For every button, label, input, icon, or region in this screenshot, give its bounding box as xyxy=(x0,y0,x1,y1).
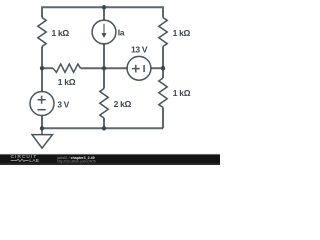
svg-text:1 kΩ: 1 kΩ xyxy=(173,28,191,38)
value label R4 2 kOhm xyxy=(114,99,132,109)
value label R3 1 kOhm xyxy=(58,77,76,87)
resistor R2 1 kOhm top-right xyxy=(159,18,167,47)
wire middle column from I1 to node B and R4 xyxy=(103,44,105,89)
wire middle row from node A to R3 xyxy=(42,67,53,69)
wire middle row from V2 to node C xyxy=(151,67,163,69)
svg-text:LAB: LAB xyxy=(29,158,39,163)
node junction dot bottom middle xyxy=(102,126,106,130)
node A junction dot left middle xyxy=(40,66,44,70)
voltage source V2 13 V circle with plus and minus xyxy=(127,56,151,80)
svg-text:1 kΩ: 1 kΩ xyxy=(58,77,76,87)
value label R2 1 kOhm xyxy=(173,28,191,38)
wire top rail from left column over to right column xyxy=(42,7,163,17)
wire right column from R5 to bottom corner xyxy=(162,108,164,129)
svg-text:http://circuitlab.com/c/fx7h: http://circuitlab.com/c/fx7h xyxy=(57,159,96,163)
ground symbol xyxy=(32,128,53,148)
node junction dot bottom left xyxy=(40,126,44,130)
svg-text:Ia: Ia xyxy=(118,28,125,38)
resistor R4 2 kOhm middle column xyxy=(100,89,108,119)
CircuitLab logo xyxy=(11,154,40,163)
value label V2 13 V xyxy=(131,45,148,55)
svg-text:3 V: 3 V xyxy=(57,100,69,110)
footer watermark bar xyxy=(0,154,220,165)
footer text line 1 xyxy=(56,156,95,160)
node C junction dot right middle xyxy=(161,66,165,70)
value label R5 1 kOhm xyxy=(173,88,191,98)
value label V1 3 V xyxy=(57,100,69,110)
resistor R3 1 kOhm middle horizontal xyxy=(53,64,81,72)
svg-text:1 kΩ: 1 kΩ xyxy=(173,88,191,98)
node B junction dot center xyxy=(102,66,106,70)
current source I1 Ia circle with down arrow xyxy=(92,20,116,44)
wire left column below V1 to bottom rail xyxy=(41,115,43,128)
svg-text:2 kΩ: 2 kΩ xyxy=(114,99,132,109)
wire bottom rail xyxy=(42,127,163,129)
resistor R5 1 kOhm bottom-right xyxy=(159,78,167,108)
wire middle row from R3 to V2 xyxy=(81,67,128,69)
node junction dot top middle xyxy=(102,5,106,9)
svg-text:1 kΩ: 1 kΩ xyxy=(52,28,70,38)
wire middle column from top rail to I1 xyxy=(103,7,105,20)
footer text line 2 xyxy=(57,159,96,163)
svg-text:13 V: 13 V xyxy=(131,45,148,55)
wire right column from R2 to node C and R5 xyxy=(162,47,164,79)
wire middle column from R4 to bottom rail xyxy=(103,118,105,128)
voltage source V1 3 V circle with plus and minus xyxy=(30,92,54,116)
value label R1 1 kOhm xyxy=(52,28,70,38)
wire left column between R1 and node A xyxy=(41,47,43,92)
value label Ia xyxy=(118,28,125,38)
resistor R1 1 kOhm top-left xyxy=(38,18,46,47)
